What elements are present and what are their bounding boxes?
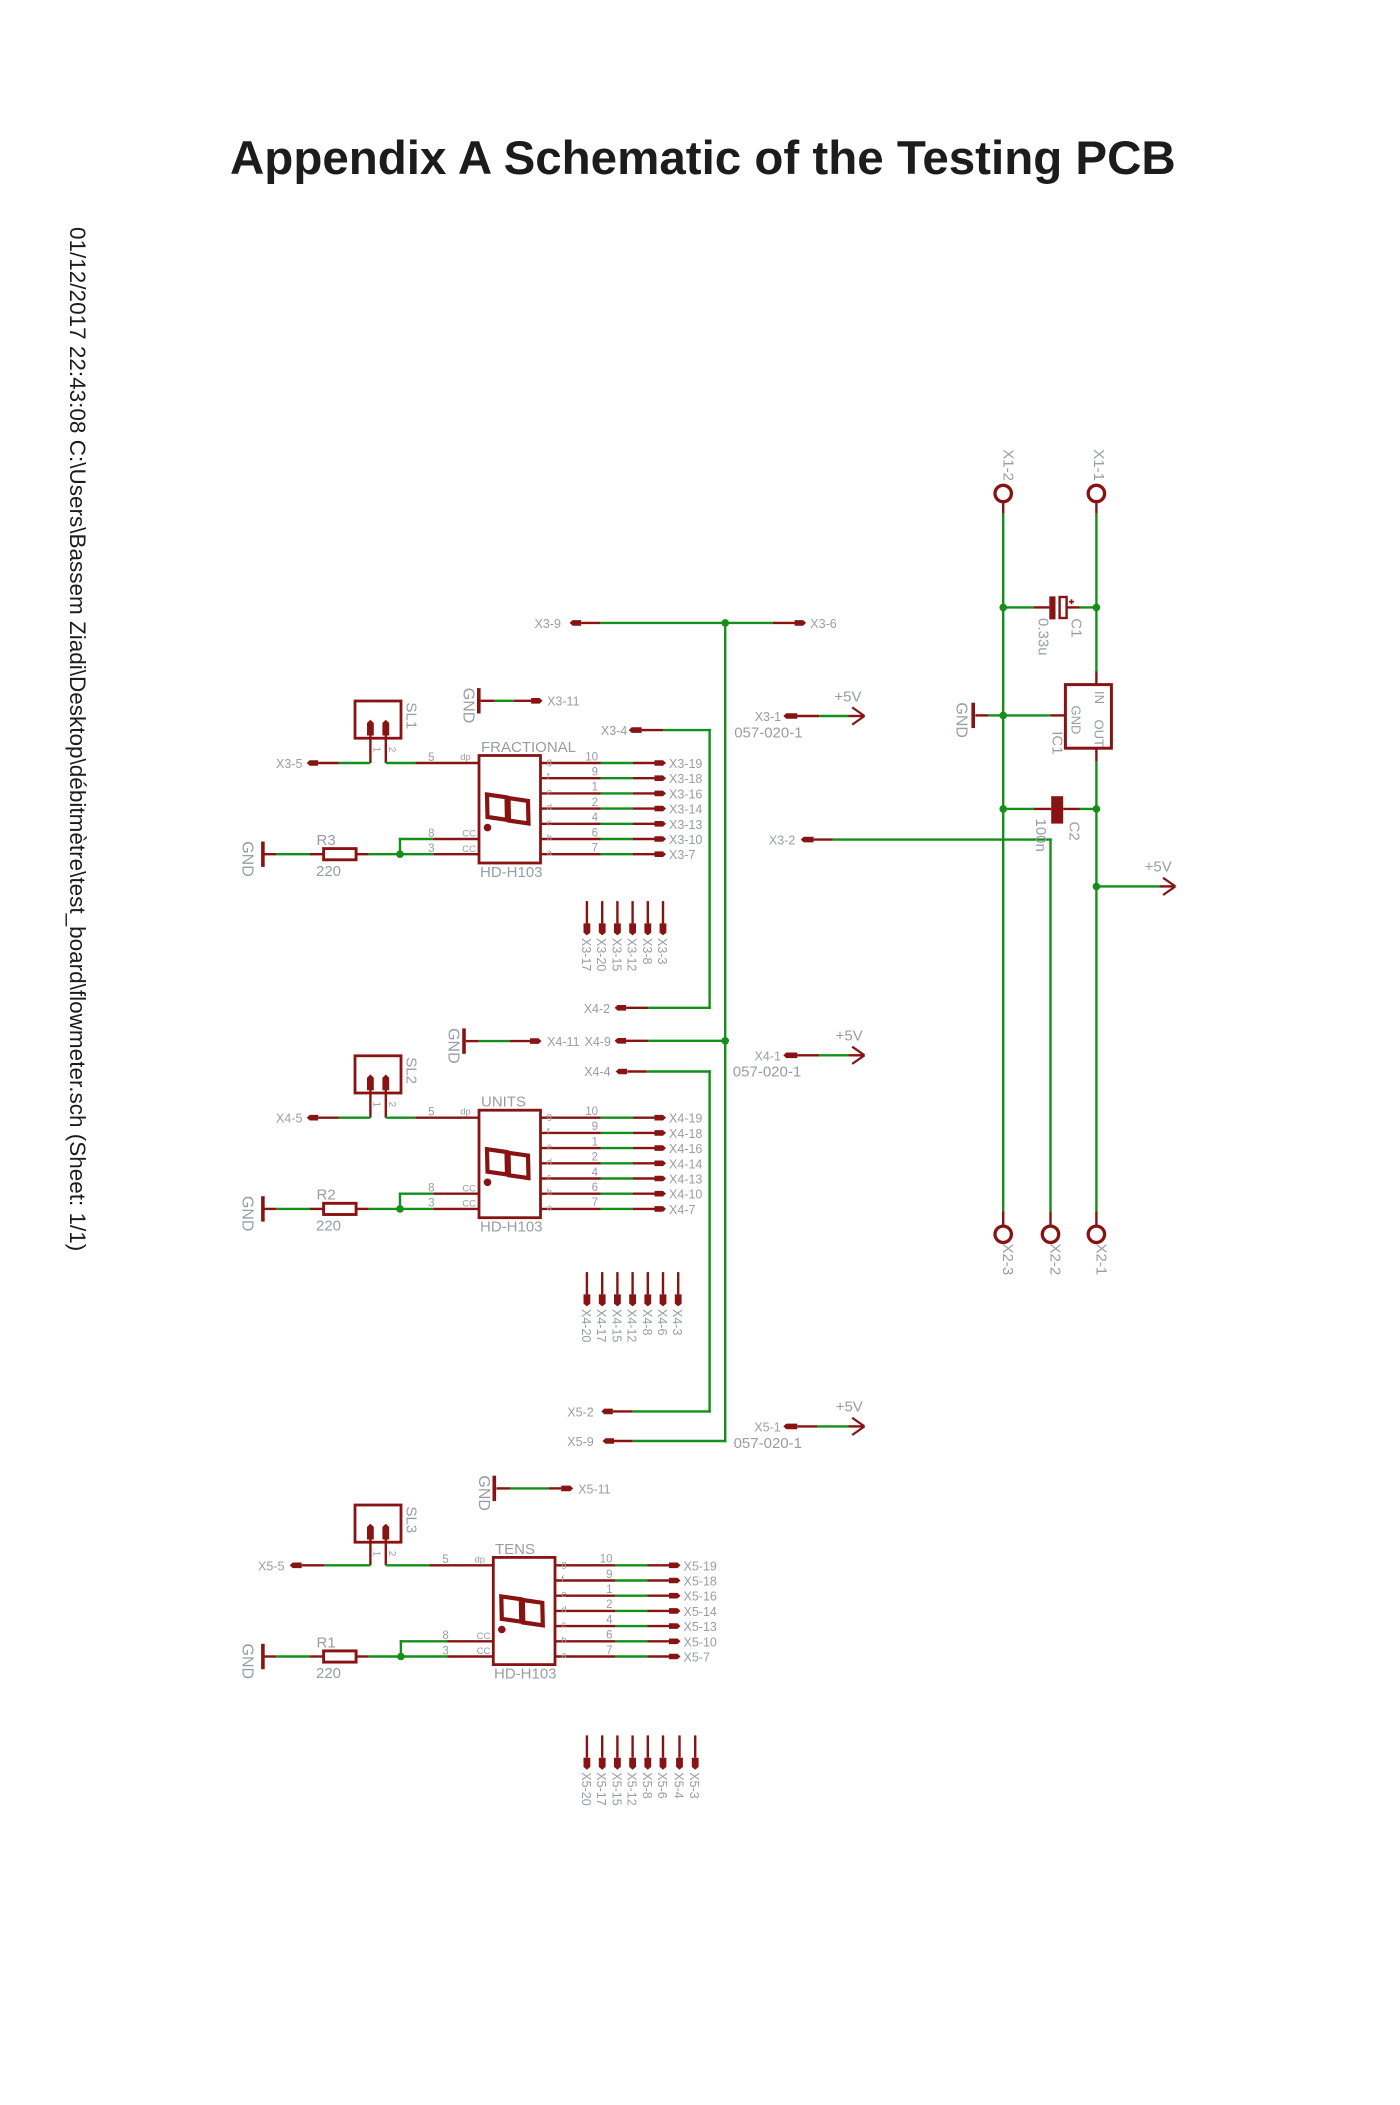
pad X2-3	[995, 1226, 1011, 1242]
svg-text:9: 9	[592, 1121, 598, 1133]
svg-text:d: d	[547, 1157, 552, 1168]
svg-text:X5-2: X5-2	[567, 1405, 593, 1419]
ground symbol at X5-11	[475, 1475, 510, 1511]
svg-text:2: 2	[592, 797, 598, 809]
display pin c (pin 4) wire to X5-13	[555, 1614, 681, 1630]
svg-text:2: 2	[386, 1551, 397, 1557]
wire X4-9 to junction	[626, 1040, 648, 1042]
terminal stub X4-15	[614, 1272, 621, 1306]
svg-text:1: 1	[606, 1584, 612, 1596]
svg-text:X3-10: X3-10	[669, 833, 702, 847]
svg-text:CC: CC	[477, 1646, 491, 1657]
svg-text:X2-2: X2-2	[1047, 1244, 1064, 1276]
net stub X4-4	[616, 1069, 628, 1075]
net stub X3-5	[307, 760, 319, 766]
svg-text:GND: GND	[239, 1644, 256, 1680]
wire X4-5 to SL2 and display dp	[318, 1116, 338, 1118]
svg-text:1: 1	[592, 1136, 598, 1148]
display pin e (pin 1) wire to X5-16	[555, 1584, 681, 1600]
resistor R3	[310, 849, 369, 860]
display pin e (pin 1) wire to X3-16	[541, 782, 667, 798]
svg-text:1: 1	[370, 1102, 381, 1108]
wire junction to +5V symbol	[1096, 885, 1159, 887]
wire GND symbol to left vertical	[988, 714, 1003, 716]
resistor R2	[310, 1203, 369, 1214]
+5V supply symbol at X3-1	[849, 715, 865, 717]
svg-text:X5-10: X5-10	[684, 1635, 717, 1649]
svg-text:X3-12: X3-12	[625, 938, 639, 971]
svg-text:X4-6: X4-6	[655, 1309, 669, 1335]
net stub X4-5	[307, 1115, 319, 1121]
display pin CC (pin 3)	[442, 1645, 493, 1657]
svg-text:GND: GND	[475, 1475, 492, 1511]
svg-text:c: c	[547, 817, 552, 828]
capacitor C2	[1034, 796, 1080, 823]
net stub X5-2	[601, 1409, 613, 1415]
display pin f (pin 9) wire to X3-18	[541, 767, 667, 783]
ground symbol at R1	[239, 1644, 277, 1680]
capacitor C1	[1034, 596, 1080, 619]
terminal stub X3-3	[660, 901, 667, 935]
svg-text:X3-9: X3-9	[535, 617, 561, 631]
terminal stub X5-15	[614, 1735, 621, 1769]
pad X1-2	[995, 485, 1011, 501]
terminal stub X4-17	[599, 1272, 606, 1306]
terminal stub X5-4	[676, 1735, 683, 1769]
net stub X3-9	[570, 620, 582, 626]
junction X4-9	[721, 1037, 729, 1045]
terminal stub X4-12	[629, 1272, 636, 1306]
display pin a (pin 7) wire to X4-7	[541, 1197, 667, 1213]
svg-text:X3-20: X3-20	[594, 938, 608, 971]
wire C1 to right vertical	[1080, 606, 1097, 608]
junction at R1	[397, 1653, 405, 1661]
net stub X5-9	[603, 1438, 615, 1444]
svg-text:SL2: SL2	[403, 1057, 420, 1084]
svg-text:01/12/2017 22:43:08 C:\Users\: 01/12/2017 22:43:08 C:\Users\Bassem Ziad…	[65, 227, 90, 1251]
terminal stub X3-8	[644, 901, 651, 935]
display pin g (pin 10) wire to X4-19	[541, 1106, 667, 1122]
display pin g (pin 10) wire to X5-19	[555, 1554, 681, 1570]
wire left vertical to C1	[1003, 606, 1034, 608]
7-segment display UNITS (HD-H103)	[479, 1110, 541, 1218]
7-segment display TENS (HD-H103)	[493, 1557, 555, 1664]
svg-text:GND: GND	[239, 841, 256, 877]
net stub X3-11	[531, 698, 543, 704]
net stub X4-2	[615, 1005, 627, 1011]
svg-text:X4-5: X4-5	[276, 1112, 302, 1126]
svg-text:Appendix A Schematic of the Te: Appendix A Schematic of the Testing PCB	[230, 132, 1176, 185]
svg-text:X3-5: X3-5	[276, 757, 302, 771]
svg-text:X3-3: X3-3	[655, 938, 669, 964]
display pin CC (pin 8)	[428, 1183, 479, 1195]
voltage regulator IC1	[1050, 671, 1111, 761]
svg-text:dp: dp	[460, 1107, 471, 1118]
svg-text:X5-1: X5-1	[754, 1420, 780, 1434]
connector SL3	[355, 1505, 401, 1565]
svg-text:C1: C1	[1068, 618, 1085, 637]
terminal stub X5-12	[629, 1735, 636, 1769]
junction C2 right	[1093, 805, 1101, 813]
svg-text:e: e	[547, 1142, 552, 1153]
terminal stub X4-3	[675, 1272, 682, 1306]
display pin CC (pin 8)	[442, 1630, 493, 1642]
svg-text:220: 220	[316, 1218, 341, 1235]
terminal stub X4-8	[644, 1272, 651, 1306]
wire right vertical C2 to +5V row	[1095, 809, 1097, 887]
svg-text:X5-14: X5-14	[684, 1605, 717, 1619]
svg-text:X3-4: X3-4	[601, 724, 627, 738]
display pin a (pin 7) wire to X5-7	[555, 1645, 681, 1661]
svg-text:GND: GND	[445, 1028, 462, 1064]
svg-text:7: 7	[592, 843, 598, 855]
terminal stub X4-6	[660, 1272, 667, 1306]
svg-text:2: 2	[386, 747, 397, 753]
display pin f (pin 9) wire to X4-18	[541, 1121, 667, 1137]
wire GND to R1	[276, 1655, 309, 1657]
svg-text:CC: CC	[477, 1631, 491, 1642]
svg-text:X4-20: X4-20	[579, 1309, 593, 1342]
svg-text:d: d	[547, 802, 552, 813]
connector SL2	[355, 1056, 401, 1118]
svg-text:R2: R2	[317, 1187, 336, 1204]
svg-text:6: 6	[592, 1182, 598, 1194]
display pin d (pin 2) wire to X5-14	[555, 1599, 681, 1615]
svg-text:100n: 100n	[1032, 819, 1049, 852]
wire R3 to CC junction	[369, 853, 400, 855]
+5V supply symbol	[1159, 885, 1175, 887]
svg-text:X4-14: X4-14	[669, 1157, 702, 1171]
wire X4-4 to X5-2	[628, 1070, 711, 1412]
svg-text:X4-10: X4-10	[669, 1188, 702, 1202]
wire GND to X5-11	[510, 1487, 549, 1489]
wire X4-1 to +5V	[797, 1054, 819, 1056]
svg-text:f: f	[547, 772, 550, 783]
svg-text:IN: IN	[1092, 691, 1107, 704]
wire junction to CC pins	[399, 1193, 433, 1209]
svg-text:X3-13: X3-13	[669, 818, 702, 832]
svg-text:g: g	[547, 1111, 552, 1122]
svg-text:2: 2	[606, 1599, 612, 1611]
svg-text:OUT: OUT	[1091, 720, 1106, 748]
wire X5-5 to SL3 and display dp	[302, 1564, 324, 1566]
svg-text:X2-1: X2-1	[1092, 1244, 1109, 1276]
svg-text:5: 5	[442, 1554, 448, 1566]
svg-text:X4-2: X4-2	[584, 1002, 610, 1016]
wire junction to CC pins	[399, 838, 433, 854]
pad X2-1	[1088, 1226, 1104, 1242]
wire junction to X3-6	[725, 622, 773, 624]
svg-text:X5-17: X5-17	[594, 1772, 608, 1805]
svg-text:GND: GND	[239, 1196, 256, 1232]
wire right vertical down to X2-1	[1095, 886, 1097, 1225]
junction IC1 GND	[999, 712, 1007, 720]
svg-text:1: 1	[370, 1551, 381, 1557]
7-segment display FRACTIONAL (HD-H103)	[479, 756, 541, 864]
svg-text:057-020-1: 057-020-1	[734, 1435, 802, 1452]
terminal stub X3-20	[599, 901, 606, 935]
wire X5-9 from junction	[614, 1440, 633, 1442]
display pin d (pin 2) wire to X3-14	[541, 797, 667, 813]
wire junction to CC pins	[400, 1640, 448, 1656]
terminal stub X5-17	[599, 1735, 606, 1769]
svg-text:X3-2: X3-2	[769, 834, 795, 848]
svg-text:X3-7: X3-7	[669, 848, 695, 862]
terminal stub X5-3	[692, 1735, 699, 1769]
display pin b (pin 6) wire to X3-10	[541, 827, 667, 843]
svg-text:b: b	[561, 1635, 566, 1646]
svg-text:X5-12: X5-12	[625, 1772, 639, 1805]
svg-text:X3-18: X3-18	[669, 772, 702, 786]
terminal stub X4-20	[584, 1272, 591, 1306]
terminal stub X5-20	[584, 1735, 591, 1769]
svg-text:C2: C2	[1066, 822, 1083, 841]
svg-text:X3-14: X3-14	[669, 803, 702, 817]
display pin a (pin 7) wire to X3-7	[541, 843, 667, 859]
svg-text:X4-1: X4-1	[755, 1049, 781, 1063]
wire X3-1 to +5V	[797, 715, 819, 717]
svg-text:X3-16: X3-16	[669, 787, 702, 801]
svg-text:X5-4: X5-4	[672, 1772, 686, 1798]
svg-text:X4-7: X4-7	[669, 1203, 695, 1217]
svg-text:X3-17: X3-17	[579, 938, 593, 971]
ground symbol at R3	[239, 841, 277, 877]
svg-text:SL1: SL1	[403, 703, 420, 730]
svg-text:0.33u: 0.33u	[1035, 618, 1052, 656]
svg-text:5: 5	[428, 752, 434, 764]
net stub X3-2	[801, 837, 814, 843]
junction +5V	[1093, 883, 1101, 891]
svg-text:X3-8: X3-8	[640, 938, 654, 964]
ground symbol at X4-11	[445, 1028, 479, 1064]
display pin c (pin 4) wire to X3-13	[541, 812, 667, 828]
junction C1 right	[1093, 604, 1101, 612]
display pin c (pin 4) wire to X4-13	[541, 1167, 667, 1183]
svg-text:a: a	[561, 1650, 567, 1661]
svg-text:c: c	[547, 1172, 552, 1183]
svg-text:X4-8: X4-8	[640, 1309, 654, 1335]
svg-text:c: c	[561, 1620, 566, 1631]
net stub X5-1	[783, 1424, 797, 1430]
svg-text:IC1: IC1	[1048, 731, 1065, 754]
svg-text:TENS: TENS	[495, 1541, 535, 1558]
display pin g (pin 10) wire to X3-19	[541, 751, 667, 767]
svg-text:X4-12: X4-12	[625, 1309, 639, 1342]
junction C2 left	[999, 805, 1007, 813]
svg-text:CC: CC	[462, 1199, 476, 1210]
svg-text:+5V: +5V	[836, 1028, 863, 1045]
junction X3-9/X3-6	[721, 619, 729, 627]
svg-text:GND: GND	[1068, 706, 1083, 735]
svg-text:X5-8: X5-8	[640, 1772, 654, 1798]
wire X3-9 to junction	[581, 622, 600, 624]
svg-text:SL3: SL3	[403, 1507, 420, 1534]
svg-text:X4-11: X4-11	[547, 1035, 579, 1049]
svg-text:R3: R3	[317, 832, 336, 849]
ground symbol at X3-11	[459, 688, 494, 724]
svg-text:6: 6	[592, 827, 598, 839]
svg-text:4: 4	[592, 812, 599, 824]
display pin CC (pin 3)	[428, 843, 479, 855]
svg-text:X5-16: X5-16	[684, 1590, 717, 1604]
wire IC1 GND pin to left vertical	[1003, 714, 1050, 716]
svg-text:X4-3: X4-3	[670, 1309, 684, 1335]
display pin dp (pin 5)	[415, 752, 479, 764]
svg-text:HD-H103: HD-H103	[494, 1666, 557, 1683]
wire X5-1 to +5V	[798, 1425, 818, 1427]
svg-text:X5-19: X5-19	[684, 1559, 717, 1573]
svg-text:2: 2	[386, 1102, 397, 1108]
svg-text:X3-15: X3-15	[609, 938, 623, 971]
svg-text:a: a	[547, 1202, 553, 1213]
svg-text:X3-1: X3-1	[755, 710, 781, 724]
net stub X5-5	[290, 1563, 302, 1569]
svg-text:f: f	[547, 1126, 550, 1137]
svg-text:2: 2	[592, 1152, 598, 1164]
svg-text:X4-9: X4-9	[585, 1035, 611, 1049]
junction at R2	[396, 1205, 404, 1213]
wire GND to X3-11	[495, 700, 514, 702]
svg-text:X1-1: X1-1	[1090, 449, 1107, 481]
svg-text:X1-2: X1-2	[999, 449, 1016, 481]
svg-text:GND: GND	[952, 702, 969, 738]
ground symbol at IC1	[952, 702, 988, 738]
svg-text:X3-6: X3-6	[810, 617, 836, 631]
svg-text:GND: GND	[459, 688, 476, 724]
svg-text:X2-3: X2-3	[999, 1244, 1016, 1276]
ground symbol at R2	[239, 1196, 277, 1232]
svg-text:10: 10	[585, 751, 598, 763]
wire X3-2 to X2-2	[814, 838, 1052, 1225]
svg-text:10: 10	[600, 1554, 613, 1566]
svg-text:X3-19: X3-19	[669, 757, 702, 771]
svg-text:057-020-1: 057-020-1	[734, 725, 802, 742]
svg-text:X4-19: X4-19	[669, 1112, 702, 1126]
wire X3-5 to SL1 and display dp	[318, 762, 338, 764]
svg-text:X5-3: X5-3	[687, 1772, 701, 1798]
svg-text:CC: CC	[462, 844, 476, 855]
svg-text:7: 7	[606, 1645, 612, 1657]
wire X5-2 from X4-4	[613, 1410, 633, 1412]
svg-text:X5-20: X5-20	[579, 1772, 593, 1805]
wire junction down to X4-9	[724, 623, 726, 1041]
wire X1-1 down (VIN net)	[1095, 503, 1097, 671]
net stub X3-1	[783, 713, 797, 719]
svg-text:X4-16: X4-16	[669, 1142, 702, 1156]
wire X3-4 to X4-2	[642, 729, 711, 1009]
svg-text:+5V: +5V	[834, 688, 861, 705]
svg-text:9: 9	[606, 1569, 612, 1581]
pad X2-2	[1042, 1226, 1058, 1242]
net stub X3-4	[629, 727, 642, 733]
net stub X3-6	[795, 620, 807, 626]
svg-text:g: g	[547, 757, 552, 768]
net stub X4-9	[615, 1038, 627, 1044]
svg-text:X3-11: X3-11	[547, 695, 579, 709]
terminal stub X3-17	[584, 901, 591, 935]
wire C2 to right vertical	[1080, 808, 1097, 810]
junction at R3	[396, 850, 404, 858]
svg-text:a: a	[547, 848, 553, 859]
svg-text:6: 6	[606, 1630, 612, 1642]
svg-text:R1: R1	[317, 1634, 336, 1651]
svg-text:d: d	[561, 1604, 566, 1615]
svg-text:X4-17: X4-17	[594, 1309, 608, 1342]
terminal stub X3-12	[629, 901, 636, 935]
svg-text:057-020-1: 057-020-1	[733, 1064, 801, 1081]
display pin dp (pin 5)	[415, 1107, 479, 1119]
resistor R1	[310, 1651, 369, 1662]
wire GND to R3	[276, 853, 309, 855]
svg-text:b: b	[547, 833, 552, 844]
wire GND to R2	[276, 1208, 309, 1210]
svg-text:FRACTIONAL: FRACTIONAL	[481, 739, 576, 756]
net stub X5-11	[561, 1486, 573, 1492]
svg-text:X5-9: X5-9	[567, 1435, 593, 1449]
wire R2 to CC junction	[369, 1208, 400, 1210]
svg-text:10: 10	[585, 1106, 598, 1118]
svg-text:f: f	[561, 1574, 564, 1585]
svg-text:dp: dp	[475, 1554, 486, 1565]
svg-text:CC: CC	[462, 829, 476, 840]
display pin d (pin 2) wire to X4-14	[541, 1152, 667, 1168]
wire left vertical to C2	[1003, 808, 1034, 810]
+5V supply symbol at X4-1	[849, 1054, 865, 1056]
svg-text:X4-15: X4-15	[609, 1309, 623, 1342]
net stub X4-11	[530, 1038, 542, 1044]
wire junction down to X5-9	[724, 1041, 726, 1442]
svg-text:X5-6: X5-6	[655, 1772, 669, 1798]
wire GND to X4-11	[479, 1040, 510, 1042]
svg-text:HD-H103: HD-H103	[480, 1219, 543, 1236]
display pin CC (pin 3)	[428, 1198, 479, 1210]
svg-text:220: 220	[316, 863, 341, 880]
terminal stub X5-6	[660, 1735, 667, 1769]
svg-text:X5-5: X5-5	[258, 1559, 284, 1573]
svg-text:dp: dp	[460, 752, 471, 763]
svg-text:b: b	[547, 1187, 552, 1198]
junction C1 left	[999, 604, 1007, 612]
net stub X4-1	[783, 1053, 797, 1059]
display pin CC (pin 8)	[428, 828, 479, 840]
display pin b (pin 6) wire to X5-10	[555, 1630, 681, 1646]
svg-text:1: 1	[592, 782, 598, 794]
svg-text:X4-4: X4-4	[584, 1065, 610, 1079]
display pin e (pin 1) wire to X4-16	[541, 1136, 667, 1152]
svg-text:4: 4	[592, 1167, 599, 1179]
display pin b (pin 6) wire to X4-10	[541, 1182, 667, 1198]
svg-text:1: 1	[370, 747, 381, 753]
svg-text:+5V: +5V	[1145, 858, 1172, 875]
svg-text:X5-15: X5-15	[609, 1772, 623, 1805]
svg-text:X5-11: X5-11	[578, 1482, 610, 1496]
display pin f (pin 9) wire to X5-18	[555, 1569, 681, 1585]
svg-text:UNITS: UNITS	[481, 1094, 526, 1111]
svg-text:X5-13: X5-13	[684, 1620, 717, 1634]
svg-text:e: e	[547, 787, 552, 798]
pad X1-1	[1088, 485, 1104, 501]
display pin dp (pin 5)	[430, 1554, 494, 1566]
terminal stub X5-8	[644, 1735, 651, 1769]
wire IC1 OUT down	[1095, 761, 1097, 809]
svg-text:4: 4	[606, 1614, 613, 1626]
wire R1 to CC junction	[369, 1655, 401, 1657]
svg-text:9: 9	[592, 767, 598, 779]
svg-text:7: 7	[592, 1197, 598, 1209]
svg-text:+5V: +5V	[836, 1399, 863, 1416]
svg-text:g: g	[561, 1559, 566, 1570]
svg-text:220: 220	[316, 1665, 341, 1682]
